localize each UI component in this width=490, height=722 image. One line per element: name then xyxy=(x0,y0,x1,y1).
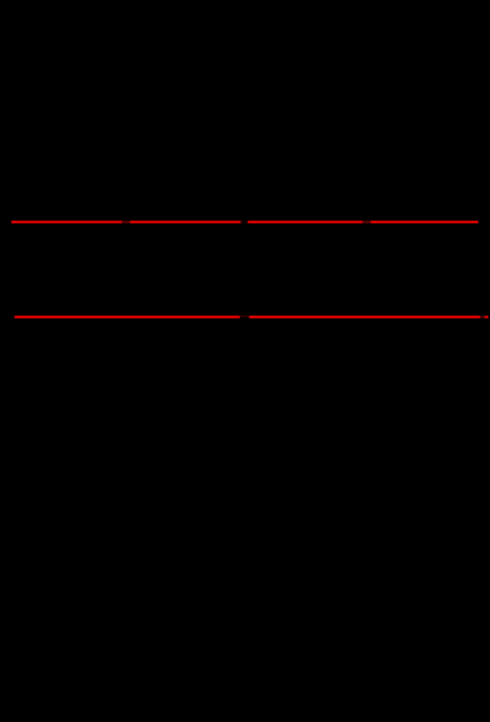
wire segment 2 center gap tint xyxy=(240,316,249,317)
wire segment 1b (bright) xyxy=(130,221,241,223)
wire segment 2b (bright) xyxy=(249,316,480,318)
red underline row 1 xyxy=(11,221,478,223)
wire segment 1a (bright) xyxy=(11,221,122,223)
wire segment 1 center gap tint xyxy=(241,221,248,223)
wire segment 1 dim notch B xyxy=(363,221,371,223)
wire segment 2c (bright) xyxy=(485,316,489,318)
wire segment 2a (bright) xyxy=(15,316,240,318)
wire segment 1c (bright) xyxy=(248,221,363,223)
wire segment 2 dim notch xyxy=(480,316,484,318)
wire segment 1 dim notch A xyxy=(122,221,130,223)
wire segment 1d (bright) xyxy=(371,221,479,223)
red underline row 2 xyxy=(15,316,489,319)
